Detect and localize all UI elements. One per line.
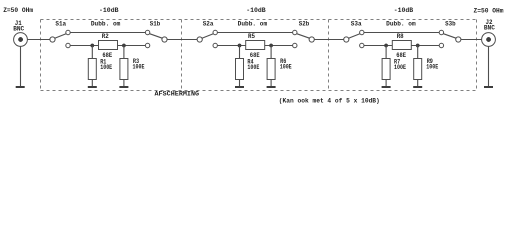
ground R7 bbox=[382, 86, 391, 88]
svg-text:100E: 100E bbox=[100, 64, 112, 71]
switch S3b lower contact bbox=[439, 43, 443, 47]
wire J1 ground stub bbox=[20, 46, 22, 86]
switch S2b lower contact bbox=[293, 43, 297, 47]
resistor R3 bbox=[120, 59, 128, 80]
node junction right section 3 bbox=[416, 44, 419, 47]
svg-text:-10dB: -10dB bbox=[394, 7, 414, 14]
ground R3 bbox=[119, 86, 128, 88]
switch S1a lower contact bbox=[66, 43, 70, 47]
switch S2b arm bbox=[297, 34, 310, 39]
switch S3b arm bbox=[443, 34, 456, 39]
switch S1a arm bbox=[55, 34, 66, 39]
svg-text:S1a: S1a bbox=[55, 20, 66, 27]
wire R1 top bbox=[91, 46, 93, 59]
switch S2b upper contact bbox=[293, 30, 297, 34]
switch S1a upper contact bbox=[66, 30, 70, 34]
node junction right section 1 bbox=[122, 44, 125, 47]
ground R1 bbox=[88, 86, 97, 88]
ground R4 bbox=[235, 86, 244, 88]
svg-text:R8: R8 bbox=[397, 33, 404, 40]
ground J2 bbox=[484, 86, 493, 88]
wire attenuator in section 1 bbox=[70, 45, 98, 47]
svg-text:Z=50 OHm: Z=50 OHm bbox=[3, 7, 33, 14]
wire J1 to S1a bbox=[27, 39, 50, 41]
switch S3a common contact bbox=[344, 37, 349, 42]
ground R9 bbox=[413, 86, 422, 88]
wire attenuator out section 2 bbox=[265, 45, 293, 47]
shield box left edge bbox=[40, 20, 42, 91]
svg-text:-10dB: -10dB bbox=[246, 7, 266, 14]
switch S2a lower contact bbox=[213, 43, 217, 47]
svg-text:100E: 100E bbox=[426, 64, 438, 71]
wire bypass top section 1 bbox=[70, 32, 145, 34]
wire R9 top bbox=[417, 46, 419, 59]
wire R7 bottom bbox=[385, 80, 387, 87]
switch S3a arm bbox=[349, 34, 360, 39]
shield inner wall 2 bbox=[328, 20, 330, 91]
switch S2b common contact bbox=[309, 37, 314, 42]
svg-text:Dubb. om: Dubb. om bbox=[386, 20, 416, 27]
svg-text:100E: 100E bbox=[247, 64, 259, 71]
svg-text:R5: R5 bbox=[248, 33, 255, 40]
svg-text:-10dB: -10dB bbox=[99, 7, 119, 14]
svg-text:S3a: S3a bbox=[351, 20, 362, 27]
wire attenuator out section 1 bbox=[118, 45, 146, 47]
ground J1 bbox=[16, 86, 25, 88]
svg-text:100E: 100E bbox=[394, 64, 406, 71]
wire bypass top section 2 bbox=[217, 32, 292, 34]
resistor R9 bbox=[414, 59, 422, 80]
ground R6 bbox=[267, 86, 276, 88]
svg-text:S1b: S1b bbox=[150, 21, 161, 28]
switch S3a upper contact bbox=[360, 30, 364, 34]
node junction right section 2 bbox=[269, 44, 272, 47]
resistor R7 bbox=[382, 59, 390, 80]
connector J2 BNC bbox=[482, 33, 496, 47]
svg-text:Dubb. om: Dubb. om bbox=[91, 20, 121, 27]
wire R6 bottom bbox=[270, 80, 272, 87]
shield box right edge bbox=[476, 20, 478, 91]
wire attenuator out section 3 bbox=[411, 45, 439, 47]
switch S1b upper contact bbox=[145, 30, 149, 34]
wire R9 bottom bbox=[417, 80, 419, 87]
switch S3b common contact bbox=[456, 37, 461, 42]
wire section 1 to section 2 bbox=[167, 39, 197, 41]
svg-text:S2a: S2a bbox=[203, 20, 214, 27]
wire R4 top bbox=[239, 46, 241, 59]
switch S1b lower contact bbox=[145, 43, 149, 47]
switch S1b common contact bbox=[162, 37, 167, 42]
wire R3 bottom bbox=[123, 80, 125, 87]
wire R4 bottom bbox=[239, 80, 241, 87]
switch S2a common contact bbox=[197, 37, 202, 42]
shield box top edge bbox=[41, 19, 477, 21]
switch S3b upper contact bbox=[439, 30, 443, 34]
resistor R2 bbox=[99, 41, 118, 50]
wire attenuator in section 3 bbox=[364, 45, 392, 47]
svg-text:BNC: BNC bbox=[484, 24, 495, 31]
resistor R6 bbox=[267, 59, 275, 80]
wire R1 bottom bbox=[91, 80, 93, 87]
svg-text:S2b: S2b bbox=[299, 21, 310, 28]
resistor R4 bbox=[236, 59, 244, 80]
switch S1a common contact bbox=[50, 37, 55, 42]
wire R6 top bbox=[270, 46, 272, 59]
resistor R5 bbox=[246, 41, 265, 50]
svg-text:Z=50 OHm: Z=50 OHm bbox=[474, 8, 504, 15]
svg-text:BNC: BNC bbox=[13, 25, 24, 32]
wire R7 top bbox=[385, 46, 387, 59]
svg-text:Dubb. om: Dubb. om bbox=[238, 20, 268, 27]
svg-text:S3b: S3b bbox=[445, 21, 456, 28]
node junction left section 2 bbox=[238, 44, 241, 47]
switch S1b arm bbox=[150, 34, 163, 39]
shield inner wall 1 bbox=[181, 20, 183, 91]
switch S2a upper contact bbox=[213, 30, 217, 34]
shield box bottom edge bbox=[41, 90, 477, 92]
svg-text:100E: 100E bbox=[280, 64, 292, 71]
wire R3 top bbox=[123, 46, 125, 59]
wire J2 ground stub bbox=[488, 46, 490, 86]
node junction left section 3 bbox=[384, 44, 387, 47]
node junction left section 1 bbox=[91, 44, 94, 47]
wire section 2 to section 3 bbox=[314, 39, 343, 41]
wire S3b to J2 bbox=[461, 39, 482, 41]
wire attenuator in section 2 bbox=[217, 45, 245, 47]
wire bypass top section 3 bbox=[364, 32, 439, 34]
svg-text:R2: R2 bbox=[102, 33, 109, 40]
svg-text:100E: 100E bbox=[133, 64, 145, 71]
svg-text:(Kan ook met 4 of 5 x 10dB): (Kan ook met 4 of 5 x 10dB) bbox=[279, 97, 380, 104]
resistor R8 bbox=[392, 41, 411, 50]
switch S3a lower contact bbox=[360, 43, 364, 47]
resistor R1 bbox=[88, 59, 96, 80]
svg-text:AFSCHERMING: AFSCHERMING bbox=[155, 91, 200, 98]
connector J1 BNC bbox=[14, 33, 28, 47]
switch S2a arm bbox=[202, 34, 213, 39]
